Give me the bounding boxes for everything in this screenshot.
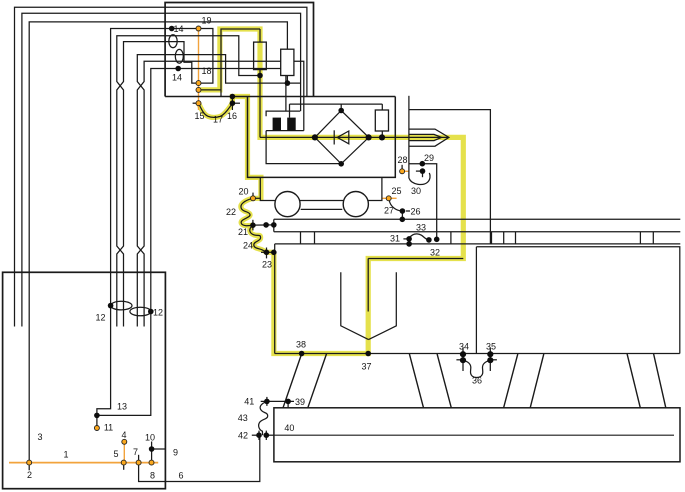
svg-text:4: 4 [121,430,126,440]
svg-text:38: 38 [296,340,306,350]
svg-text:35: 35 [486,342,496,352]
svg-text:17: 17 [213,115,223,125]
svg-text:25: 25 [391,186,401,196]
svg-text:7: 7 [133,447,138,457]
svg-text:9: 9 [173,448,178,458]
svg-text:15: 15 [194,111,204,121]
svg-text:22: 22 [226,207,236,217]
svg-text:18: 18 [201,66,211,76]
svg-text:16: 16 [227,111,237,121]
svg-text:34: 34 [459,342,469,352]
svg-text:27: 27 [384,206,394,216]
svg-text:13: 13 [117,402,127,412]
svg-text:5: 5 [113,449,118,459]
svg-text:8: 8 [150,471,155,481]
svg-text:12: 12 [95,313,105,323]
svg-text:10: 10 [145,432,155,442]
svg-text:14: 14 [173,24,183,34]
svg-text:2: 2 [27,470,32,480]
svg-text:21: 21 [238,227,248,237]
svg-text:28: 28 [397,155,407,165]
svg-text:3: 3 [37,432,42,442]
svg-text:39: 39 [295,397,305,407]
svg-text:37: 37 [361,362,371,372]
svg-text:30: 30 [411,186,421,196]
svg-text:43: 43 [238,413,248,423]
svg-text:12: 12 [153,308,163,318]
svg-text:14: 14 [172,73,182,83]
svg-text:11: 11 [104,423,113,433]
svg-text:24: 24 [243,241,253,251]
svg-text:32: 32 [430,248,440,258]
svg-text:36: 36 [472,376,482,386]
svg-text:42: 42 [238,430,248,440]
svg-text:33: 33 [416,223,426,233]
svg-text:40: 40 [284,423,294,433]
svg-text:6: 6 [178,471,183,481]
svg-text:20: 20 [238,187,248,197]
svg-text:31: 31 [390,234,400,244]
svg-text:41: 41 [244,396,254,406]
svg-text:19: 19 [201,16,211,26]
svg-text:1: 1 [63,450,68,460]
svg-text:26: 26 [410,207,420,217]
svg-text:23: 23 [262,260,272,270]
svg-text:29: 29 [424,153,434,163]
